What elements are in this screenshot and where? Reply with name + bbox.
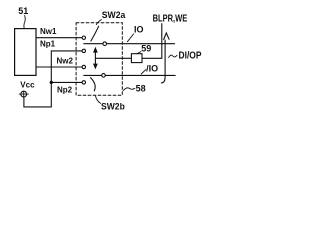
- brace grouping IO and /IO: [161, 33, 169, 83]
- leader for SW2b: [96, 96, 101, 103]
- BLPR,WE vertical wire: [161, 24, 163, 59]
- box 59: [131, 54, 142, 63]
- dashed switch box SW2: [76, 23, 122, 95]
- /IO line: [84, 74, 175, 76]
- svg-text:58: 58: [136, 83, 146, 93]
- wire Np2: [51, 81, 82, 83]
- svg-text:/IO: /IO: [146, 63, 158, 73]
- svg-text:BLPR,WE: BLPR,WE: [153, 14, 188, 25]
- svg-text:59: 59: [141, 44, 151, 54]
- leader for 51: [24, 16, 25, 29]
- switch contact Np1: [82, 49, 85, 52]
- Vcc supply symbol: [19, 91, 28, 97]
- wire Nw2: [36, 66, 82, 68]
- svg-text:Np2: Np2: [57, 85, 73, 94]
- switch contact Np2: [82, 81, 85, 84]
- contact circle on IO line: [103, 42, 107, 46]
- leader for 59: [137, 52, 141, 54]
- svg-text:IO: IO: [134, 25, 144, 35]
- control line from switch to BLPR,WE: [95, 57, 161, 59]
- svg-text:DI/OP: DI/OP: [179, 51, 202, 62]
- svg-text:Nw2: Nw2: [57, 57, 74, 66]
- wire Nw1: [36, 37, 82, 39]
- svg-text:SW2b: SW2b: [101, 102, 125, 113]
- write circuit block 51: [15, 29, 36, 76]
- svg-text:Vcc: Vcc: [20, 80, 35, 89]
- svg-text:SW2a: SW2a: [102, 10, 126, 21]
- svg-text:Nw1: Nw1: [40, 27, 57, 36]
- tilde leader for DI/OP: [169, 55, 177, 57]
- svg-text:Np1: Np1: [40, 39, 56, 48]
- switch contact Nw1: [82, 36, 85, 39]
- actuation double arrow: [93, 47, 98, 70]
- leader for /IO: [141, 70, 146, 74]
- junction dot on Np2: [50, 81, 53, 84]
- switch arm SW2a: [91, 26, 99, 41]
- svg-text:51: 51: [18, 6, 28, 16]
- leader for 58: [123, 88, 135, 91]
- switch contact Nw2: [82, 65, 85, 68]
- leader for SW2a: [96, 20, 101, 25]
- switch arm SW2b: [90, 78, 95, 91]
- contact circle on /IO line: [102, 74, 106, 78]
- IO line: [84, 43, 175, 45]
- wire from Vcc to node Np1: [24, 51, 82, 107]
- leader for IO: [127, 34, 133, 42]
